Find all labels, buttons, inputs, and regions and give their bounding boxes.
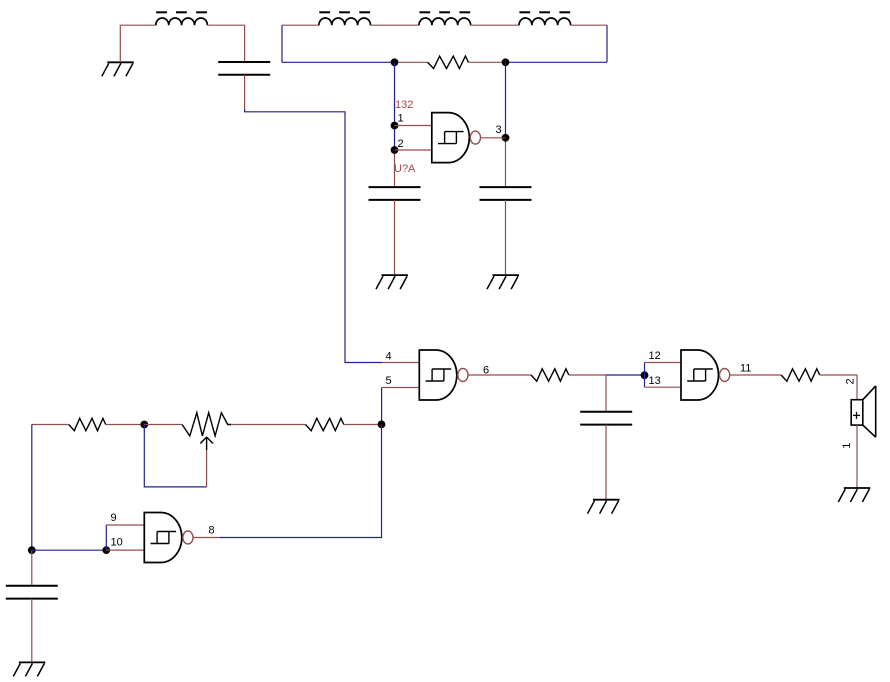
svg-text:9: 9 (111, 512, 117, 524)
wire C1 down (244, 75, 246, 110)
wire node F to pin 10 (32, 549, 107, 551)
pin 11 lead to R3 (730, 374, 781, 376)
wire speaker to GND5 (856, 425, 858, 488)
wire pin8 to node E (219, 424, 381, 537)
wire RV1 to R5 (231, 424, 305, 426)
wire R5 to node E (344, 424, 382, 426)
wire C4 tap down (605, 375, 607, 412)
svg-text:5: 5 (386, 375, 392, 387)
resistor R5 (306, 418, 344, 430)
ground GND5 (838, 488, 870, 502)
resistor R2 (531, 369, 569, 381)
wire node D to RV1 (144, 424, 182, 426)
svg-text:132: 132 (395, 99, 413, 111)
resistor R1 (428, 56, 469, 68)
resistor R3 (781, 369, 820, 381)
wire second rail left (blue) (282, 61, 395, 63)
pin 2 lead (395, 149, 432, 151)
junction pin 1 (391, 122, 399, 130)
pin 3 lead (481, 137, 506, 139)
wire C2 to GND2 (394, 200, 396, 275)
wire node A down to pins 1-2 (394, 62, 396, 150)
op-amp U?A nand gate (432, 113, 470, 163)
wire L1 to C1 (207, 25, 245, 62)
svg-text:1: 1 (841, 443, 853, 449)
wire GND1 to L1 (120, 25, 156, 62)
wire rail corner left (32, 424, 34, 426)
wire R1 to node B (469, 61, 506, 63)
wire C5 to GND6 (31, 599, 33, 663)
wire pin9 riser (105, 525, 107, 550)
svg-text:12: 12 (649, 350, 661, 362)
inductor L2 (319, 12, 371, 25)
wire second rail right (blue) (506, 61, 608, 63)
capacitor C2 (369, 187, 421, 200)
svg-text:U?A: U?A (394, 163, 416, 175)
resistor R4 (69, 418, 106, 430)
svg-text:4: 4 (386, 351, 392, 363)
wire R3 to speaker (820, 375, 857, 400)
wire wiper loop maroon (206, 450, 208, 487)
wire C1 to U?B pin 4 (long blue) (245, 109, 382, 363)
junction pin 2 (391, 146, 399, 154)
wire L4 to right corner (571, 24, 608, 26)
svg-text:2: 2 (845, 378, 857, 384)
wire wiper loop blue (144, 425, 206, 487)
svg-text:3: 3 (496, 124, 502, 136)
junction pin 10 (102, 546, 110, 554)
speaker LS1 (851, 386, 876, 437)
wire node C riser pins 12-13 (644, 363, 646, 388)
potentiometer RV1 (182, 413, 231, 436)
wire C4 to GND4 (605, 425, 607, 500)
wire L3 to L4 (470, 24, 519, 26)
inductor L4 (519, 12, 571, 25)
potentiometer RV1 wiper arrow (200, 437, 213, 450)
capacitor C4 (580, 412, 632, 425)
inductor L3 (419, 12, 471, 25)
wire top-rail left corner down (281, 25, 283, 62)
op-amp U?C nand gate (681, 350, 719, 400)
node D junction (140, 421, 148, 429)
pin 10 lead (106, 549, 144, 551)
wire pin3 node to C3 (505, 138, 507, 187)
wire pin5 riser (381, 388, 383, 425)
node A junction (391, 58, 399, 66)
inductor L1 (156, 12, 208, 25)
wire node A to R1 (395, 61, 428, 63)
ground GND4 (588, 500, 620, 514)
wire node B down to pin 3 (505, 62, 507, 138)
svg-text:8: 8 (209, 524, 215, 536)
ground GND3 (487, 275, 519, 289)
wire C3 to GND3 (505, 200, 507, 275)
wire right corner down (606, 25, 608, 62)
pin 5 lead (382, 387, 420, 389)
wire L2 to L3 (371, 24, 419, 26)
node C junction (641, 371, 649, 379)
wire R2 to C4 tap (569, 374, 606, 376)
capacitor C1 (218, 62, 270, 75)
pin 4 lead (382, 362, 419, 364)
svg-text:11: 11 (740, 363, 751, 375)
wire pin2 node to C2 (394, 150, 396, 187)
wire node F to C5 (31, 550, 33, 586)
capacitor C5 (6, 586, 58, 599)
pin 12 lead (645, 362, 682, 364)
pin 8 lead (193, 537, 219, 539)
junction pin 3 (502, 134, 510, 142)
pin 13 lead (645, 386, 682, 388)
ground GND1 (102, 62, 134, 76)
svg-text:1: 1 (398, 112, 404, 124)
wire corner to R4 (33, 424, 69, 426)
svg-text:10: 10 (111, 537, 123, 549)
capacitor C3 (480, 187, 532, 200)
node E junction (378, 421, 386, 429)
node B junction (502, 58, 510, 66)
op-amp U?B nand gate (419, 350, 457, 400)
ground GND6 (13, 662, 45, 676)
pin 9 lead (106, 524, 144, 526)
ground GND2 (376, 275, 408, 289)
wire left rail down (31, 425, 33, 551)
svg-text:13: 13 (649, 375, 661, 387)
wire top-rail left segment (282, 24, 319, 26)
pin 1 lead (395, 125, 432, 127)
pin 6 lead to R2 (468, 374, 531, 376)
wire tap to node C (606, 374, 645, 376)
svg-text:2: 2 (398, 138, 404, 150)
op-amp U?D nand gate (144, 513, 181, 563)
node F junction (28, 546, 36, 554)
wire R4 to node D (106, 424, 145, 426)
